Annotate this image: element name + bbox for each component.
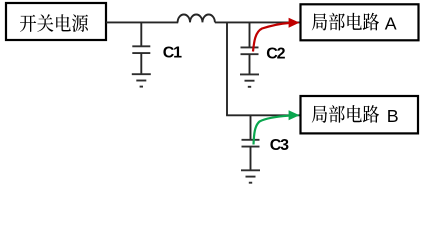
svg-text:C2: C2 bbox=[266, 46, 285, 63]
wire: C3 lead from bottom rail bbox=[250, 115, 252, 140]
svg-text:B: B bbox=[387, 106, 399, 126]
ground under C1: bar 2 bbox=[136, 80, 146, 82]
wire: C1 bottom plate to ground bbox=[140, 53, 142, 74]
wire: C2 bottom plate to ground bbox=[249, 54, 251, 74]
wire: C3 bottom plate to ground bbox=[250, 147, 252, 171]
capacitor C2 top plate bbox=[241, 46, 259, 48]
capacitor C3 bottom plate bbox=[242, 146, 260, 148]
wire: C2 lead from top rail bbox=[249, 22, 251, 47]
ground under C2: bar 2 bbox=[245, 80, 255, 82]
ground under C2: bar 1 bbox=[240, 73, 259, 75]
text 局部电路 (box B) bbox=[312, 105, 379, 123]
ground under C3: bar 3 bbox=[249, 182, 252, 184]
box: local circuit A (局部电路 A) bbox=[301, 4, 419, 40]
capacitor C1 bottom plate bbox=[132, 52, 150, 54]
text 开关电源 bbox=[20, 14, 88, 32]
text 局部电路 (box A) bbox=[312, 13, 379, 31]
wire: bottom rail to local circuit B bbox=[226, 114, 300, 116]
svg-text:A: A bbox=[385, 14, 397, 34]
capacitor C1 top plate bbox=[132, 45, 150, 47]
svg-text:C3: C3 bbox=[270, 137, 289, 154]
ground under C3: bar 1 bbox=[241, 169, 260, 171]
red arrow: C2 node to local circuit A (curve) bbox=[253, 23, 289, 52]
ground under C1: bar 3 bbox=[140, 86, 143, 88]
green arrow: C3 node to local circuit B (curve) bbox=[254, 116, 289, 145]
wire: C1 lead from top rail bbox=[140, 22, 142, 46]
red arrow: head bbox=[289, 18, 300, 28]
box: switching power supply (开关电源) bbox=[6, 3, 106, 40]
wire: PSU output to inductor bbox=[106, 21, 178, 23]
ground under C1: bar 1 bbox=[132, 73, 151, 75]
wire: vertical branch from top rail down bbox=[226, 22, 228, 115]
wire: inductor to local circuit A bbox=[215, 21, 300, 23]
ground under C2: bar 3 bbox=[248, 86, 251, 88]
ground under C3: bar 2 bbox=[246, 176, 256, 178]
box: local circuit B (局部电路 B) bbox=[301, 96, 419, 133]
inductor L1 bbox=[178, 14, 215, 22]
svg-text:C1: C1 bbox=[163, 45, 182, 62]
capacitor C2 bottom plate bbox=[241, 53, 259, 55]
capacitor C3 top plate bbox=[242, 139, 260, 141]
green arrow: head bbox=[289, 110, 300, 120]
